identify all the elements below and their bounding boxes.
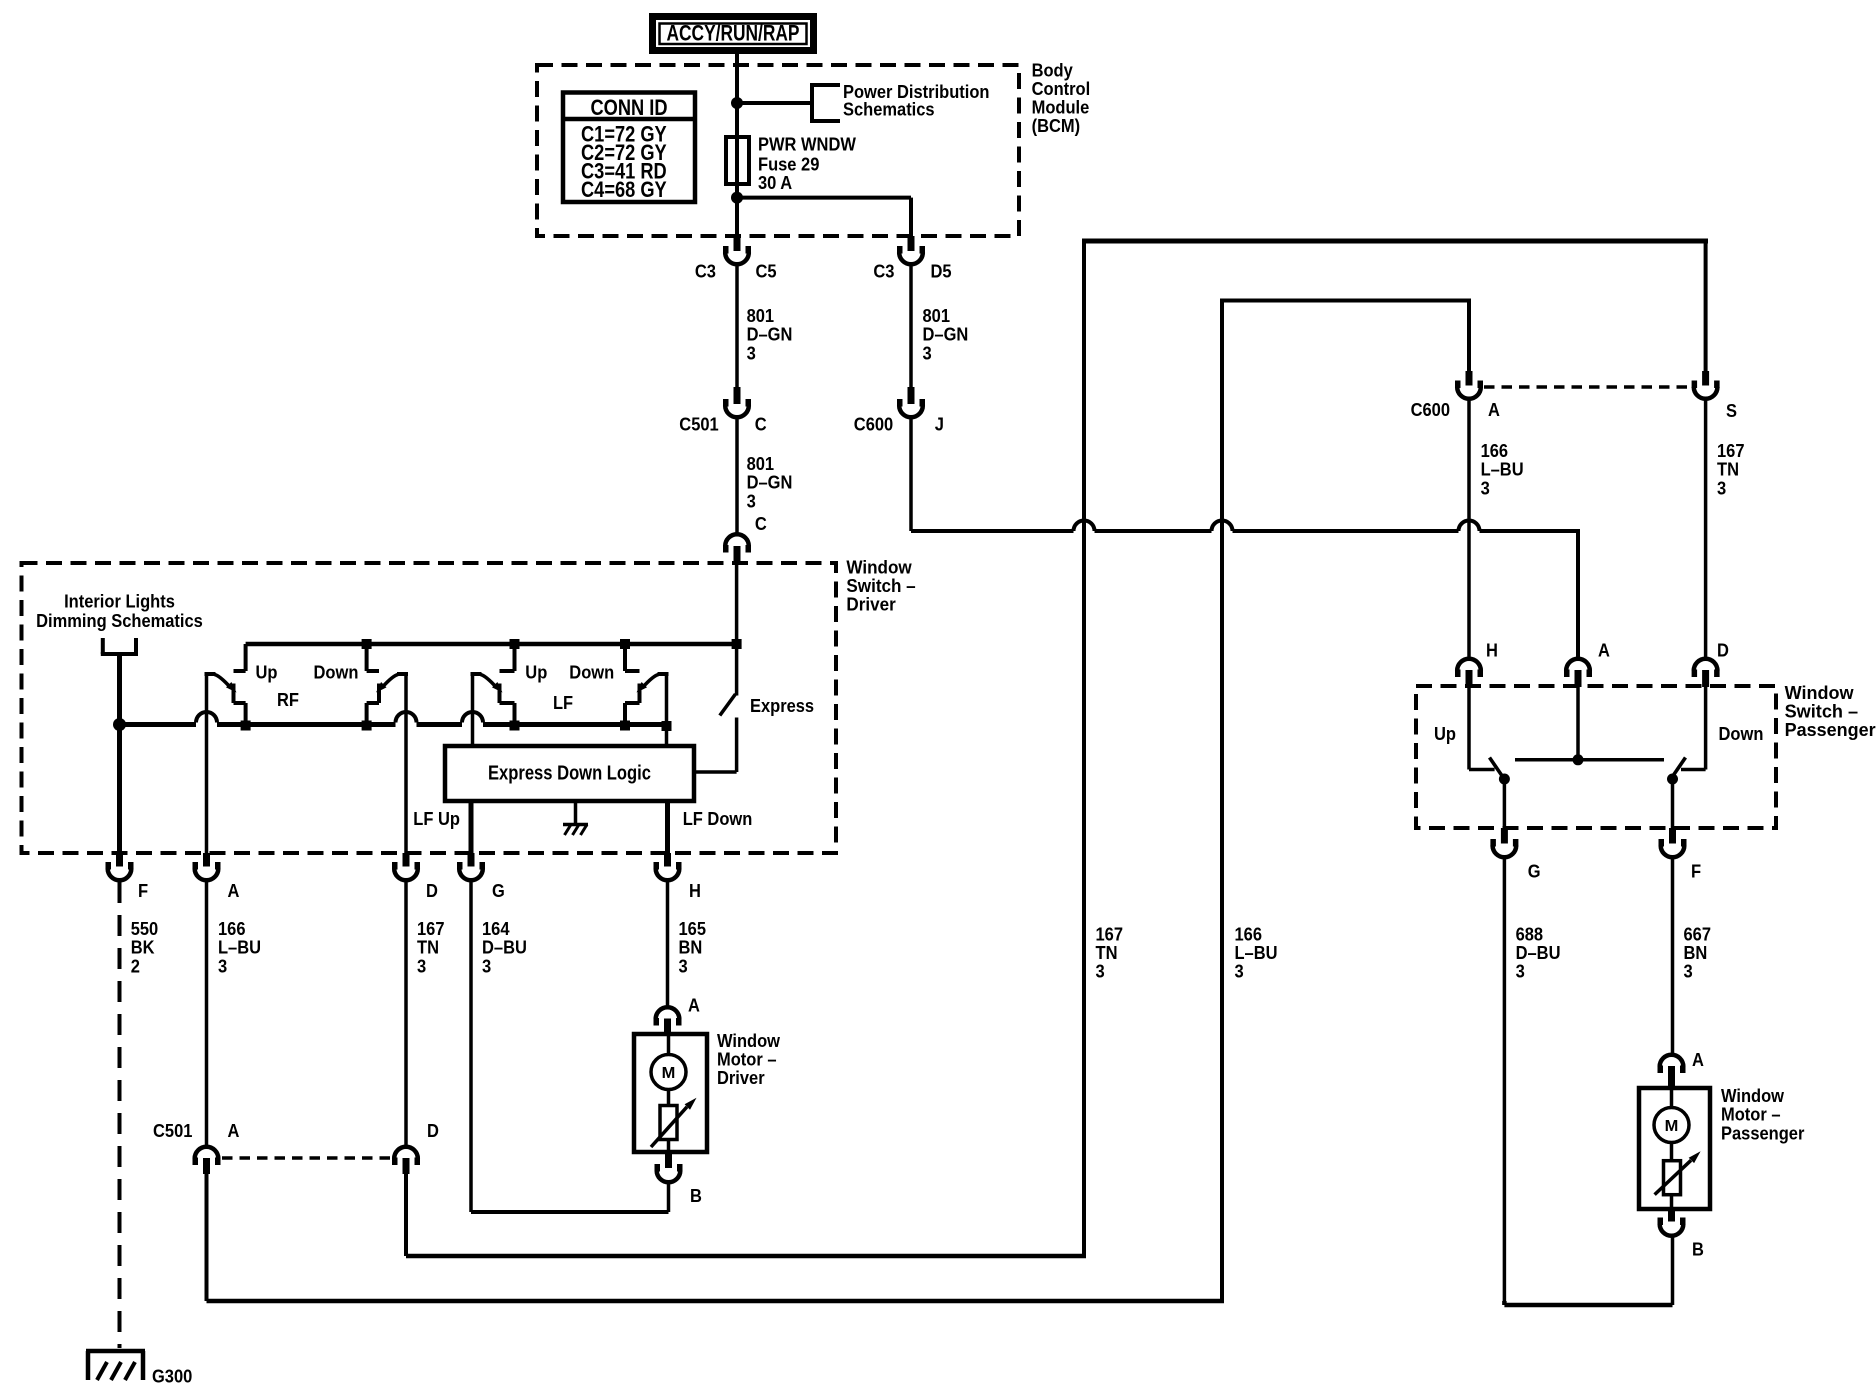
wire 167 TN riser — [1082, 241, 1086, 1256]
wire 801 D-GN from C5 to C501 — [735, 266, 739, 388]
svg-text:3: 3 — [679, 956, 688, 976]
wire 166 L-BU to passenger H — [1467, 400, 1471, 659]
connector passenger H stub — [1466, 670, 1473, 687]
node passenger up blade pivot — [1499, 774, 1510, 785]
node top bus RF down — [362, 639, 372, 649]
window motor passenger box — [1639, 1088, 1710, 1209]
svg-text:3: 3 — [747, 343, 756, 363]
connector passenger motor B stub — [1668, 1209, 1675, 1222]
wire feed corner down to passenger A — [1576, 529, 1580, 659]
svg-text:C3: C3 — [695, 262, 716, 282]
Express Down Logic box — [445, 746, 694, 801]
svg-text:30 A: 30 A — [758, 173, 792, 193]
switch LF Down blade — [643, 675, 659, 688]
svg-text:F: F — [138, 881, 148, 901]
svg-text:LF Up: LF Up — [413, 809, 460, 829]
svg-text:165: 165 — [679, 919, 707, 939]
svg-text:Schematics: Schematics — [843, 100, 935, 120]
svg-text:Dimming Schematics: Dimming Schematics — [36, 611, 203, 631]
svg-text:Switch –: Switch – — [846, 576, 915, 596]
svg-text:Motor –: Motor – — [717, 1050, 777, 1070]
connector driver pin G stub — [468, 853, 475, 867]
switch RF Up feed hook from top bus — [244, 644, 248, 671]
svg-text:D–GN: D–GN — [923, 325, 969, 345]
wire logic LF Up output — [469, 801, 474, 853]
svg-text:3: 3 — [1481, 478, 1490, 498]
svg-text:Down: Down — [1719, 724, 1764, 744]
node ground bus end junction — [662, 721, 672, 731]
connector C600-J cup — [899, 406, 923, 418]
svg-text:2: 2 — [131, 956, 140, 976]
window motor driver box — [634, 1034, 707, 1152]
wire LF down pivot to logic — [665, 674, 669, 748]
svg-text:C: C — [755, 415, 767, 435]
wire 166 L-BU from A pin — [205, 882, 209, 1146]
wire passenger A to common node — [1576, 686, 1580, 760]
wire feed to passenger switch (from J) — [911, 529, 1074, 533]
connector driver pin D cup — [394, 869, 418, 881]
svg-text:166: 166 — [1235, 924, 1263, 944]
svg-text:C3: C3 — [873, 262, 894, 282]
connector driver motor A cup — [656, 1007, 680, 1019]
hump ground bus over wire G — [462, 712, 483, 723]
ground symbol (logic) — [563, 823, 588, 827]
svg-text:Passenger: Passenger — [1721, 1123, 1804, 1143]
connector driver pin A stub — [203, 853, 210, 867]
connector C3-D5 cup — [899, 253, 923, 265]
wire express feed — [735, 564, 739, 696]
node top bus LF down — [620, 639, 630, 649]
svg-text:3: 3 — [923, 343, 932, 363]
switch LF Down fixed contact — [638, 684, 642, 704]
svg-text:3: 3 — [1717, 478, 1726, 498]
node passenger down blade pivot — [1667, 774, 1678, 785]
svg-text:BN: BN — [1684, 943, 1708, 963]
wire 167 TN drop to S — [1704, 241, 1708, 371]
svg-text:H: H — [1486, 641, 1498, 661]
switch RF Down blade — [382, 675, 398, 688]
wire passenger down output — [1671, 779, 1675, 828]
svg-text:3: 3 — [747, 491, 756, 511]
node junction below fuse — [731, 192, 743, 204]
svg-text:Down: Down — [314, 663, 359, 683]
hump ground bus over wire A — [196, 712, 217, 723]
CONN ID table frame — [563, 93, 695, 203]
svg-text:ACCY/RUN/RAP: ACCY/RUN/RAP — [667, 21, 800, 46]
switch LF Down contact junction on ground bus — [620, 721, 630, 731]
svg-text:3: 3 — [218, 956, 227, 976]
connector driver pin H cup — [656, 869, 680, 881]
svg-text:3: 3 — [1516, 962, 1525, 982]
connector S cup — [1694, 387, 1718, 399]
node ground bus left junction — [113, 718, 126, 731]
dashed connector link C501 A-D — [222, 1156, 390, 1160]
switch RF Down pivot cap — [397, 672, 408, 676]
svg-text:Express Down Logic: Express Down Logic — [488, 763, 651, 785]
Window Switch Driver dashed box — [22, 563, 837, 853]
circuit breaker arrow (passenger) — [1655, 1160, 1691, 1194]
connector C501-C cup — [725, 406, 749, 418]
wire branch right below fuse — [737, 196, 911, 200]
svg-text:Interior Lights: Interior Lights — [64, 592, 175, 612]
wire 801 D-GN from C501 to driver switch — [735, 419, 739, 534]
wire passenger H to up pivot — [1467, 686, 1471, 770]
svg-text:D–GN: D–GN — [747, 473, 793, 493]
svg-text:Switch –: Switch – — [1785, 702, 1859, 722]
motor M circle (driver) — [651, 1055, 686, 1090]
svg-text:3: 3 — [482, 956, 491, 976]
connector passenger F cup — [1661, 846, 1685, 858]
connector passenger D stub — [1702, 670, 1709, 687]
svg-text:S: S — [1726, 401, 1737, 421]
svg-text:164: 164 — [482, 919, 510, 939]
connector C3-C5 cup — [725, 253, 749, 265]
svg-text:Driver: Driver — [846, 595, 895, 615]
circuit breaker arrow (driver) — [651, 1107, 687, 1147]
svg-text:L–BU: L–BU — [1235, 943, 1278, 963]
Window Switch Passenger dashed box — [1416, 686, 1776, 828]
svg-text:F: F — [1691, 862, 1701, 882]
switch passenger Up blade — [1490, 758, 1503, 777]
driver top feed bus — [246, 642, 737, 647]
svg-text:LF: LF — [553, 693, 573, 713]
switch LF Up feed hook from top bus — [513, 644, 517, 671]
switch LF Up pivot cap — [471, 672, 482, 676]
ground G300 symbol — [86, 1349, 145, 1354]
svg-text:B: B — [1692, 1240, 1704, 1260]
svg-text:167: 167 — [417, 919, 445, 939]
svg-text:TN: TN — [1717, 460, 1739, 480]
svg-text:G: G — [492, 881, 505, 901]
svg-text:L–BU: L–BU — [1481, 460, 1524, 480]
svg-text:3: 3 — [1235, 962, 1244, 982]
svg-text:Up: Up — [525, 663, 547, 683]
connector passenger F stub — [1669, 828, 1676, 844]
svg-text:D–BU: D–BU — [482, 938, 527, 958]
switch LF Up contact junction on ground bus — [510, 721, 520, 731]
wire branch to power distribution — [737, 101, 812, 105]
hump feed over 167 TN wire — [1074, 521, 1095, 532]
svg-text:A: A — [228, 1121, 240, 1141]
svg-text:550: 550 — [131, 919, 159, 939]
connector driver switch pin C stub — [734, 546, 741, 564]
svg-text:Window: Window — [846, 558, 912, 578]
connector driver pin F cup — [108, 869, 132, 881]
node passenger common junction — [1573, 754, 1584, 765]
connector driver pin G cup — [459, 869, 483, 881]
svg-text:C600: C600 — [1411, 400, 1450, 420]
svg-text:A: A — [1598, 641, 1610, 661]
svg-text:Window: Window — [717, 1031, 781, 1051]
svg-text:C501: C501 — [153, 1121, 192, 1141]
CONN ID table header rule — [563, 117, 695, 122]
svg-text:167: 167 — [1717, 441, 1745, 461]
svg-text:Down: Down — [569, 663, 614, 683]
connector passenger G cup — [1493, 846, 1517, 858]
node top bus LF up — [510, 639, 520, 649]
connector C501-A stub — [203, 1158, 210, 1174]
Body Control Module dashed box — [537, 65, 1019, 236]
connector C3-D5 stub — [908, 236, 915, 251]
svg-text:3: 3 — [1096, 962, 1105, 982]
svg-text:Driver: Driver — [717, 1068, 765, 1088]
wire motor internal (driver) — [667, 1035, 671, 1055]
node top bus express feed — [732, 639, 742, 649]
svg-text:(BCM): (BCM) — [1032, 116, 1081, 136]
wire passenger D to down pivot — [1704, 686, 1708, 770]
connector driver pin A cup — [195, 869, 219, 881]
svg-text:Express: Express — [750, 696, 814, 716]
wire express output to logic — [735, 718, 739, 773]
hump feed over 166 L-BU wire at C600-A — [1459, 521, 1480, 532]
connector passenger motor B cup — [1660, 1224, 1684, 1236]
wire 166 L-BU lower run — [205, 1174, 209, 1301]
connector C600-A stub — [1466, 371, 1473, 386]
wire 167 TN lower run — [404, 1174, 408, 1256]
connector C600-J stub — [908, 387, 915, 404]
connector passenger G stub — [1501, 828, 1508, 844]
switch RF Up fixed contact — [232, 684, 236, 704]
wire driver motor B loop — [667, 1184, 671, 1212]
hump feed over 166 L-BU wire — [1212, 521, 1233, 532]
switch passenger Down blade — [1673, 758, 1686, 777]
svg-text:G300: G300 — [152, 1367, 192, 1387]
driver ground bus — [120, 722, 197, 727]
switch RF Up blade — [215, 675, 231, 688]
svg-text:A: A — [228, 881, 240, 901]
switch Express blade — [720, 694, 736, 716]
svg-text:Up: Up — [256, 663, 278, 683]
node junction to power distribution — [731, 97, 743, 109]
connector driver pin D stub — [403, 853, 410, 867]
wire motor internal (passenger) — [1670, 1089, 1674, 1108]
svg-text:J: J — [935, 415, 944, 435]
svg-text:Up: Up — [1434, 724, 1456, 744]
svg-text:Motor –: Motor – — [1721, 1105, 1781, 1125]
wire RF down pivot (D) through box — [404, 674, 408, 853]
wire 167 TN to passenger D — [1704, 400, 1708, 659]
svg-text:CONN ID: CONN ID — [591, 95, 668, 120]
wire passenger up output — [1503, 779, 1507, 828]
svg-text:C600: C600 — [854, 415, 893, 435]
svg-text:L–BU: L–BU — [218, 938, 261, 958]
switch LF Down pivot cap — [658, 672, 669, 676]
svg-text:TN: TN — [417, 938, 439, 958]
svg-text:801: 801 — [923, 306, 951, 326]
circuit breaker (passenger motor) — [1664, 1161, 1681, 1195]
svg-text:D: D — [426, 881, 438, 901]
wire 167 TN top run — [1082, 239, 1708, 244]
svg-text:3: 3 — [1684, 962, 1693, 982]
svg-text:C4=68 GY: C4=68 GY — [581, 177, 667, 202]
svg-text:Control: Control — [1032, 79, 1091, 99]
svg-text:801: 801 — [747, 306, 775, 326]
wire 801 D-GN from D5 to C600 — [909, 266, 913, 388]
wire logic LF Down output — [665, 801, 670, 853]
svg-text:D: D — [427, 1121, 439, 1141]
wire 164 D-BU from G pin — [469, 882, 473, 1212]
wire from ACCY/RUN/RAP to BCM — [735, 54, 739, 67]
wire 165 BN from H pin — [666, 882, 670, 1006]
circuit breaker (driver motor) — [660, 1106, 677, 1140]
power distribution bracket — [810, 83, 814, 123]
wire RF up pivot (A) through box — [205, 674, 209, 853]
switch RF Down fixed contact — [377, 684, 381, 704]
svg-text:BK: BK — [131, 938, 155, 958]
wire 550 BK dashed to ground — [118, 882, 122, 1348]
connector C501-A cup — [195, 1147, 219, 1159]
svg-text:167: 167 — [1096, 924, 1124, 944]
wire passenger common bar — [1515, 758, 1664, 762]
svg-text:166: 166 — [1481, 441, 1509, 461]
switch RF Down feed hook from top bus — [365, 644, 369, 671]
svg-text:166: 166 — [218, 919, 246, 939]
switch LF Up blade — [481, 675, 497, 688]
connector passenger motor A cup — [1660, 1055, 1684, 1067]
wire BCM feed vertical — [735, 67, 739, 236]
connector driver motor A stub — [664, 1019, 671, 1036]
svg-text:D: D — [1717, 641, 1729, 661]
dashed connector link C600 A-S — [1484, 385, 1690, 389]
svg-text:801: 801 — [747, 454, 775, 474]
svg-text:D5: D5 — [931, 262, 952, 282]
svg-text:C5: C5 — [756, 262, 777, 282]
connector passenger D cup — [1694, 659, 1718, 671]
connector passenger A stub — [1575, 670, 1582, 687]
connector driver motor B cup — [657, 1171, 681, 1183]
connector C501-D stub — [403, 1158, 410, 1174]
svg-text:B: B — [690, 1186, 702, 1206]
svg-text:C501: C501 — [679, 415, 718, 435]
svg-text:3: 3 — [417, 956, 426, 976]
switch RF Up pivot cap — [205, 672, 216, 676]
switch RF Up contact junction on ground bus — [241, 721, 251, 731]
wire 688 D-BU from G down — [1503, 859, 1507, 1303]
motor M circle (passenger) — [1654, 1108, 1689, 1143]
wire 667 BN from F to motor — [1671, 859, 1675, 1054]
svg-text:D–BU: D–BU — [1516, 943, 1561, 963]
svg-text:Module: Module — [1032, 98, 1090, 118]
power source box ACCY/RUN/RAP — [653, 17, 814, 51]
connector driver pin H stub — [664, 853, 671, 867]
connector driver motor B stub — [665, 1152, 672, 1168]
svg-text:Window: Window — [1785, 683, 1855, 703]
wire 801 D-GN from C600-J down and right — [909, 419, 913, 531]
svg-text:Body: Body — [1032, 61, 1073, 81]
svg-text:LF Down: LF Down — [683, 809, 753, 829]
svg-text:H: H — [689, 881, 701, 901]
svg-text:RF: RF — [277, 690, 299, 710]
connector C501-D cup — [394, 1147, 418, 1159]
svg-text:Passenger: Passenger — [1785, 720, 1876, 740]
svg-text:688: 688 — [1516, 924, 1544, 944]
svg-text:A: A — [1488, 400, 1500, 420]
connector driver pin F stub — [116, 853, 123, 867]
switch RF Down contact junction on ground bus — [362, 721, 372, 731]
wire 166 L-BU riser — [1220, 301, 1224, 1302]
wire LF up pivot to logic — [471, 674, 475, 748]
switch LF Up fixed contact — [498, 684, 502, 704]
wire passenger motor loop bottom — [1504, 1303, 1672, 1308]
wire dimming feed to ground bus — [117, 654, 122, 853]
svg-text:D–GN: D–GN — [747, 325, 793, 345]
svg-text:Window: Window — [1721, 1086, 1785, 1106]
connector passenger A cup — [1566, 659, 1590, 671]
svg-text:C: C — [755, 514, 767, 534]
connector C501-C stub — [734, 387, 741, 404]
connector C3-C5 stub — [734, 236, 741, 251]
connector driver switch pin C cup — [725, 534, 749, 546]
wire 166 L-BU top run — [1220, 299, 1471, 303]
svg-text:M: M — [1665, 1118, 1679, 1135]
switch LF Down feed hook from top bus — [623, 644, 627, 671]
connector passenger H cup — [1457, 659, 1481, 671]
svg-text:G: G — [1528, 862, 1541, 882]
ground stub from logic — [574, 801, 578, 825]
connector C600-A cup — [1457, 387, 1481, 399]
interior lights bracket — [101, 638, 105, 654]
svg-text:A: A — [688, 996, 700, 1016]
svg-text:M: M — [662, 1065, 676, 1082]
svg-text:TN: TN — [1096, 943, 1118, 963]
svg-text:A: A — [1692, 1050, 1704, 1070]
connector S stub — [1702, 371, 1709, 386]
hump ground bus over wire D — [396, 712, 417, 723]
svg-text:Fuse 29: Fuse 29 — [758, 155, 819, 175]
fuse PWR WNDW Fuse 29 30A — [726, 137, 749, 184]
wire 167 TN from D pin — [404, 882, 408, 1146]
svg-text:PWR WNDW: PWR WNDW — [758, 135, 856, 155]
connector passenger motor A stub — [1668, 1066, 1675, 1089]
wire 166 L-BU drop to C600-A — [1467, 301, 1471, 372]
svg-text:667: 667 — [1684, 924, 1712, 944]
wire passenger motor B down — [1671, 1238, 1675, 1306]
svg-text:BN: BN — [679, 938, 703, 958]
